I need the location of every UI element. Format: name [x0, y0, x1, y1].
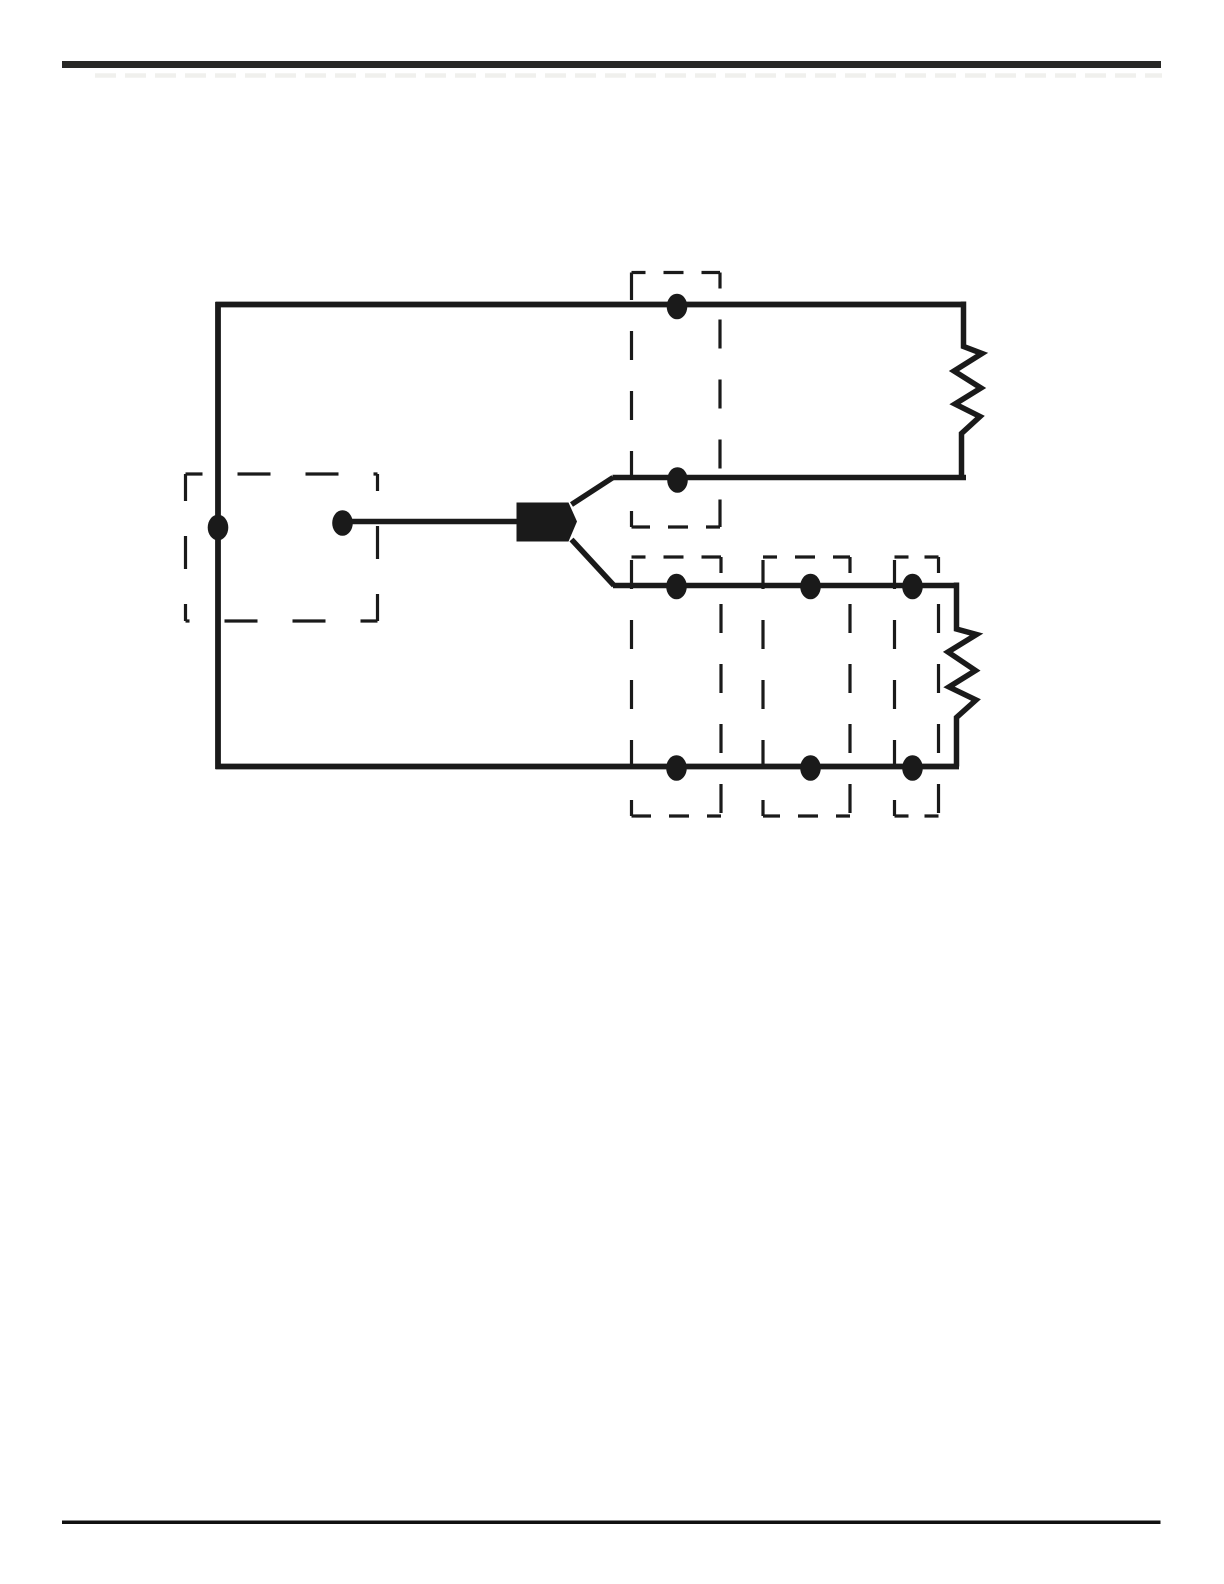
node: second wire junction	[667, 467, 688, 493]
wire: left vertical bus	[215, 302, 221, 769]
wire: middle lead to splice	[343, 519, 518, 525]
wire: second horizontal (R1 bottom to splice)	[613, 475, 967, 481]
splice connector block	[517, 503, 578, 542]
node: third wire junction 1	[666, 574, 687, 600]
dashed enclosure: lower connector 1	[632, 557, 722, 816]
node: top wire junction	[667, 294, 688, 320]
resistor R1 (upper right, vertical zigzag)	[954, 302, 982, 478]
dashed enclosure: lower connector 3	[895, 557, 939, 816]
node: third wire junction 2	[800, 574, 821, 600]
node: left bus junction	[208, 515, 229, 541]
wire: lower splice diagonal	[572, 540, 615, 586]
node: bottom wire junction 1	[666, 755, 687, 781]
wire: third horizontal (splice to R2 top)	[613, 583, 957, 589]
bottom footer rule	[62, 1521, 1161, 1525]
wire: bottom horizontal return	[216, 764, 960, 770]
wire: upper splice diagonal	[572, 478, 614, 505]
dashed enclosure: upper inline connector	[632, 273, 721, 528]
node: middle lead terminal	[332, 510, 353, 536]
resistor R2 (lower right, vertical zigzag)	[948, 583, 977, 767]
faint show-through strip under header rule	[95, 73, 1162, 78]
dashed enclosure: lower connector 2	[763, 557, 850, 816]
wire: top horizontal	[216, 302, 964, 308]
node: third wire junction 3	[902, 574, 923, 600]
dashed enclosure: left connector outline	[186, 474, 378, 621]
node: bottom wire junction 3	[902, 755, 923, 781]
top header rule	[62, 61, 1161, 68]
node: bottom wire junction 2	[800, 755, 821, 781]
